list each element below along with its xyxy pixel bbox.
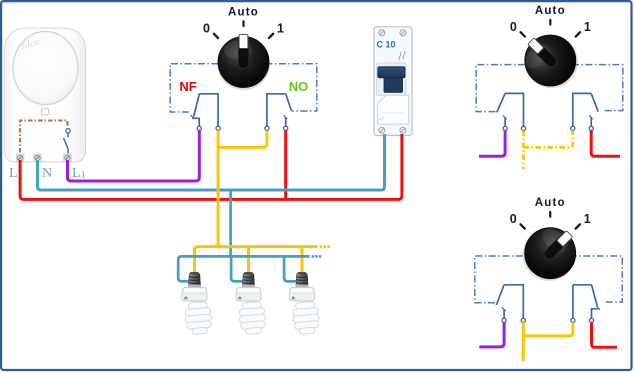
circuit breaker C10	[374, 27, 412, 136]
NF contact (closed)	[191, 94, 219, 126]
terminal labels L N L1	[9, 166, 86, 181]
svg-text:N: N	[42, 166, 52, 181]
yellow bus dots	[319, 245, 330, 248]
internal wiring (brown dash-dot)	[20, 121, 67, 153]
right top red wire	[591, 131, 620, 157]
NO contact (open)	[267, 94, 291, 126]
connector square	[41, 109, 48, 115]
selector switch S1 knob (Auto)	[217, 35, 270, 91]
lamp E2	[236, 272, 267, 335]
right bottom NO terminals	[571, 318, 575, 322]
wire: yellow main feed	[217, 130, 220, 246]
S1 contact box (dash-dot)	[170, 64, 317, 112]
svg-text:NO: NO	[289, 79, 309, 94]
NO terminals	[265, 126, 269, 130]
right bottom NO contact (closed)	[573, 285, 600, 319]
svg-text:L: L	[9, 166, 18, 181]
breaker screws	[379, 30, 406, 134]
label panel	[378, 95, 409, 124]
blue bus dots	[311, 255, 321, 258]
breaker toggle	[378, 67, 405, 78]
svg-text:NF: NF	[179, 79, 196, 94]
right top knob (position 0)	[512, 23, 589, 100]
right top dial labels	[510, 5, 591, 37]
internal switch	[64, 129, 71, 154]
wire: blue feed to lamps	[229, 190, 232, 256]
right bottom NF terminals	[502, 318, 506, 322]
wire: phase red bus	[20, 134, 402, 199]
right top NF terminals	[503, 126, 507, 130]
right bottom contact box	[475, 256, 623, 303]
wire: neutral blue bus	[38, 134, 385, 190]
selector switch S1 dial labels	[203, 7, 284, 39]
right bottom dial labels	[510, 197, 591, 229]
terminal screws	[17, 155, 70, 160]
sensor dome	[13, 32, 78, 105]
right top NO contact (open)	[573, 93, 598, 126]
wire: yellow lamp bus	[195, 247, 318, 273]
wire: blue lamp bus	[178, 256, 309, 281]
right bottom NF contact (open)	[496, 285, 523, 319]
right top NF contact (open)	[497, 93, 524, 126]
right top NO terminals	[571, 126, 575, 130]
right bottom knob (position 1)	[512, 215, 589, 292]
right top purple wire	[479, 131, 505, 157]
lamp E1	[182, 272, 213, 335]
right top contact box	[476, 65, 623, 112]
right bottom red wire	[592, 323, 618, 348]
right bottom yellow wire	[523, 323, 573, 362]
lamp E3	[289, 272, 320, 335]
terminal block squares	[16, 154, 71, 161]
NF terminals	[197, 126, 201, 130]
right top yellow dashed wire	[524, 131, 573, 170]
svg-text:C 10: C 10	[377, 40, 396, 50]
trip squiggles	[399, 51, 405, 60]
wire: purple L1 to NF	[68, 130, 200, 181]
wire: red drop from NO	[284, 130, 287, 198]
photocell sensor body	[5, 28, 86, 162]
right bottom purple wire	[479, 323, 504, 347]
wire: yellow link NF-NO	[218, 130, 267, 147]
